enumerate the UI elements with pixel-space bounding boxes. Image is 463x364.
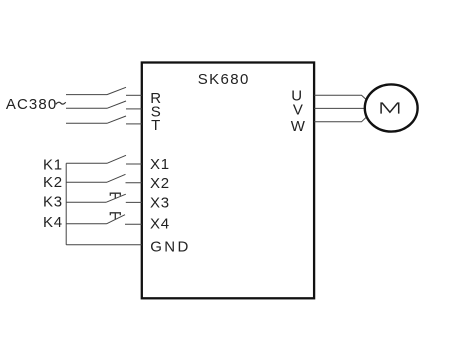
AC tilde symbol	[56, 102, 66, 104]
wire stub to terminal T	[126, 123, 142, 125]
switch blade K2	[107, 174, 126, 182]
wire V output	[314, 107, 365, 109]
svg-text:SK680: SK680	[198, 71, 250, 88]
wire stub to terminal X4	[125, 223, 142, 225]
switch blade phase S	[107, 101, 126, 108]
wire phase T input	[66, 122, 107, 124]
svg-text:K2: K2	[43, 174, 63, 191]
switch blade phase T	[107, 116, 126, 123]
svg-text:AC380: AC380	[6, 96, 57, 113]
wire stub to terminal R	[126, 94, 142, 96]
wire bus K common	[65, 163, 67, 245]
pushbutton actuator K3	[110, 193, 120, 198]
switch blade K1	[107, 155, 126, 163]
switch blade K4	[107, 215, 126, 224]
wire K1	[66, 162, 107, 164]
inverter box U1 SK680	[142, 63, 314, 299]
svg-text:X3: X3	[150, 195, 170, 212]
switch blade phase R	[107, 87, 126, 94]
svg-text:T: T	[151, 117, 161, 134]
wire phase R input	[66, 94, 107, 96]
svg-text:X2: X2	[150, 175, 170, 192]
wire K2	[66, 181, 107, 183]
wire GND return	[66, 244, 142, 246]
wire stub to terminal X2	[126, 182, 142, 184]
motor M1 label	[381, 103, 399, 114]
svg-text:K3: K3	[43, 194, 63, 211]
wire stub to terminal S	[126, 108, 142, 110]
wire stub to terminal X1	[126, 163, 142, 165]
motor M1 circle	[365, 84, 418, 131]
wire W output	[314, 117, 366, 122]
wire phase S input	[66, 107, 107, 109]
svg-text:X1: X1	[150, 156, 170, 173]
wire K4	[66, 223, 106, 225]
svg-text:GND: GND	[150, 239, 191, 256]
svg-text:X4: X4	[150, 216, 170, 233]
switch blade K3	[106, 194, 126, 202]
pushbutton actuator K4	[110, 213, 120, 219]
wire U output	[314, 95, 366, 99]
svg-text:V: V	[293, 102, 304, 119]
svg-text:K1: K1	[43, 156, 63, 173]
svg-text:W: W	[291, 118, 306, 135]
wire stub to terminal X3	[126, 201, 142, 203]
svg-text:K4: K4	[43, 214, 63, 231]
wire K3	[66, 201, 106, 203]
